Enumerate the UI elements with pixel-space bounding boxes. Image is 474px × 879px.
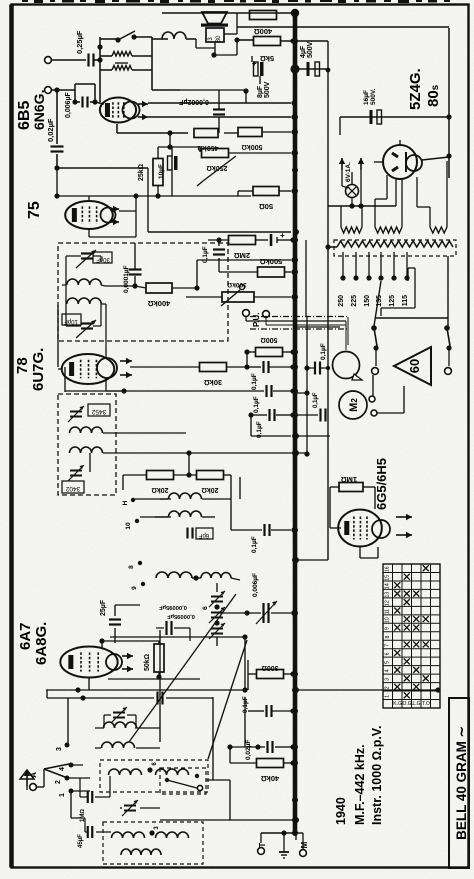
lamp label 6V-1A. [345, 162, 352, 182]
wire [80, 778, 87, 797]
coil IF2a [70, 427, 103, 433]
wire [373, 375, 404, 413]
capacitor 45pF [78, 826, 92, 848]
node [326, 68, 331, 73]
svg-text:6V-1A.: 6V-1A. [345, 162, 352, 182]
ground [279, 840, 289, 858]
svg-text:45µF: 45µF [78, 834, 84, 848]
capacitor 0,006µF [65, 91, 98, 118]
wire HT line [237, 26, 449, 28]
svg-text:0,1µF: 0,1µF [313, 392, 319, 408]
wire [159, 630, 161, 742]
wire [180, 90, 246, 133]
tap label 115 [402, 295, 409, 306]
resistor 2MΩ [229, 236, 256, 261]
wire [94, 37, 103, 102]
svg-text:+: + [252, 59, 257, 68]
cropped print top edge [22, 0, 450, 3]
svg-text:6: 6 [385, 652, 391, 655]
motor M2 [339, 391, 367, 419]
resistor 40kΩ [257, 759, 284, 784]
switch mains 2 [444, 325, 451, 374]
tube 5Z4G rectifier [383, 145, 422, 179]
trimmer IF2a [68, 406, 84, 422]
resistor zigzag 2 [100, 63, 152, 70]
svg-text:13: 13 [385, 592, 391, 598]
node [54, 193, 59, 198]
svg-text:2MΩ: 2MΩ [234, 251, 250, 260]
arrow dial lamps [339, 158, 364, 170]
svg-text:1940: 1940 [334, 797, 348, 825]
switch mains [371, 325, 378, 374]
terminal [369, 396, 377, 416]
wire [119, 196, 251, 211]
tube 6A7 [60, 647, 122, 678]
label P.U. [252, 312, 261, 327]
tube 6B5 [100, 98, 148, 123]
tube label 6A7 [17, 622, 34, 650]
resistor 400kΩ [146, 283, 172, 308]
terminal T [258, 842, 267, 854]
capacitor 0,1µF c [256, 409, 275, 438]
svg-text:225: 225 [351, 295, 358, 307]
transformer primary box [334, 240, 456, 256]
svg-text:0,1µF: 0,1µF [253, 396, 260, 413]
wire [342, 170, 361, 206]
label 3402 [62, 481, 84, 493]
svg-text:500V: 500V [264, 81, 271, 98]
wire [105, 286, 146, 288]
wire [422, 157, 449, 160]
svg-text:+: + [280, 231, 285, 240]
tap label 125 [389, 295, 396, 307]
wire [212, 697, 214, 780]
wire [295, 68, 328, 70]
svg-text:0,02µF: 0,02µF [46, 118, 55, 142]
svg-text:0,006µF: 0,006µF [65, 91, 72, 118]
capacitor 0,02µF [46, 118, 64, 151]
node [349, 203, 363, 208]
capacitor 0,0001µF [123, 265, 142, 293]
label 0,00095µF b [167, 613, 195, 619]
svg-text:30kΩ: 30kΩ [204, 378, 223, 387]
node [54, 165, 59, 170]
capacitor 0,1µF det [202, 246, 225, 263]
svg-text:2: 2 [55, 780, 62, 784]
svg-text:3: 3 [56, 747, 63, 751]
svg-text:Instr. 1000 Ω.p.V.: Instr. 1000 Ω.p.V. [370, 726, 384, 825]
IF transformer 1 box [58, 243, 228, 341]
band coil box 2 [103, 822, 203, 864]
wire [130, 352, 250, 370]
svg-text:78: 78 [14, 357, 31, 374]
wire [58, 348, 124, 391]
label 3452 [88, 404, 110, 416]
svg-text:500kΩ: 500kΩ [260, 257, 283, 266]
wire [66, 256, 101, 326]
wire [224, 13, 237, 34]
trimmer ant [111, 707, 127, 723]
contact 1 [59, 789, 74, 797]
svg-text:3402: 3402 [65, 485, 80, 492]
wire [104, 715, 136, 728]
svg-text:10µF: 10µF [158, 164, 165, 179]
svg-text:40kΩ: 40kΩ [261, 774, 280, 783]
arrow 6A7 1 [122, 653, 133, 659]
svg-text:400Ω: 400Ω [254, 27, 273, 36]
wire [296, 833, 303, 849]
wire [123, 453, 231, 490]
capacitor 0,0002µF [178, 98, 225, 115]
resistor 50Ω [253, 187, 279, 212]
svg-text:6: 6 [202, 606, 209, 610]
svg-text:0,1µF: 0,1µF [320, 343, 327, 360]
svg-text:25kΩ: 25kΩ [138, 164, 145, 181]
pickup triangle 60 [394, 347, 431, 385]
capacitor 0,1µF a [251, 361, 269, 390]
wire heater steps [375, 175, 430, 207]
svg-text:11: 11 [385, 609, 391, 614]
svg-text:0,006µF: 0,006µF [252, 573, 259, 597]
svg-text:8: 8 [128, 565, 135, 569]
wire [64, 367, 66, 392]
svg-text:4: 4 [385, 669, 391, 672]
antenna A [20, 770, 38, 786]
wire [186, 294, 297, 299]
capacitor 8µF 500V [252, 59, 271, 98]
speaker [201, 12, 228, 27]
wire [57, 168, 136, 196]
caption MF [353, 744, 367, 825]
tap label 250 [338, 295, 345, 307]
svg-text:T.O.: T.O. [422, 701, 431, 707]
capacitor 0,02µF bot [245, 740, 273, 760]
tube 75 [65, 201, 115, 229]
tube label 75 [26, 201, 43, 219]
coil IF1b [67, 298, 106, 348]
tube label 78 [14, 357, 31, 374]
svg-text:1: 1 [385, 695, 391, 698]
svg-text:O.G.: O.G. [402, 701, 413, 707]
wire [89, 453, 91, 472]
vertical wire [147, 168, 149, 232]
svg-text:A: A [29, 772, 38, 778]
wire [244, 697, 246, 747]
node [292, 38, 298, 836]
arrow 2 [120, 372, 132, 378]
resistor 5kΩ [254, 37, 281, 64]
capacitor bias + [271, 231, 285, 246]
IF transformer 2 box [58, 394, 116, 495]
arrow 6A7 2 [122, 666, 133, 672]
wire [296, 326, 340, 328]
coil IF2b [70, 447, 103, 453]
winding heater 2 [375, 178, 402, 233]
terminal P.U. 1 [243, 310, 250, 317]
svg-text:400kΩ: 400kΩ [148, 299, 171, 308]
wire [100, 38, 116, 40]
wire selector 2 [381, 268, 415, 316]
svg-text:6U7G.: 6U7G. [30, 348, 47, 391]
svg-text:25µF: 25µF [100, 599, 107, 616]
coil band 1 [109, 767, 153, 775]
band coil box 1 [100, 760, 208, 792]
svg-text:50kΩ: 50kΩ [144, 654, 151, 671]
switch arm [44, 764, 69, 777]
wire long [148, 229, 299, 235]
terminal M [300, 841, 309, 856]
tube 6U7G [62, 354, 117, 384]
capacitor 0,1µF bot [242, 696, 272, 717]
wire [206, 779, 230, 781]
svg-text:9: 9 [385, 627, 391, 630]
wire grid [57, 305, 59, 367]
coil band big [121, 849, 161, 855]
tube 6G5 [338, 510, 390, 547]
wire [251, 433, 299, 439]
tube label 6A8G. [33, 622, 50, 665]
svg-text:0,1µF: 0,1µF [251, 373, 258, 390]
svg-text:0,0001µF: 0,0001µF [123, 265, 130, 293]
svg-text:H: H [122, 500, 129, 505]
wire [65, 388, 296, 393]
caption Instr [370, 726, 384, 825]
coil osc c [156, 572, 192, 578]
gram switch [165, 774, 203, 791]
wire [360, 547, 378, 558]
svg-text:10: 10 [385, 617, 391, 623]
svg-text:16: 16 [385, 566, 391, 572]
wire [211, 40, 237, 58]
wire [216, 637, 218, 646]
capacitor 10µF [158, 156, 178, 179]
wire [66, 304, 101, 326]
trimmer IF1b [76, 320, 96, 338]
svg-text:6A8G.: 6A8G. [33, 622, 50, 665]
svg-text:6G5/6H5: 6G5/6H5 [374, 458, 389, 510]
wire [261, 833, 296, 843]
arrow diode 2 [110, 219, 119, 225]
contact 4 [59, 763, 74, 771]
wire [52, 84, 104, 104]
wire [172, 285, 200, 290]
wire long avc [293, 687, 441, 693]
wire [155, 186, 160, 199]
label 6 [202, 606, 209, 610]
wire [95, 728, 160, 748]
wire [52, 59, 86, 61]
coil ant b [102, 742, 135, 748]
tap wires [340, 252, 409, 281]
tube label 80s [425, 84, 442, 107]
tube label 6U7G. [30, 348, 47, 391]
svg-text:80: 80 [216, 35, 222, 42]
node [290, 38, 295, 43]
svg-text:1: 1 [59, 793, 66, 797]
wire [219, 268, 297, 275]
svg-text:14: 14 [385, 583, 391, 589]
resistor 20kΩ a [147, 471, 174, 494]
gram switch box [160, 768, 206, 794]
wire [132, 243, 137, 289]
svg-text:20kΩ: 20kΩ [201, 486, 218, 493]
wire [239, 477, 241, 499]
wire bus bottom [295, 833, 297, 840]
svg-text:20kΩ: 20kΩ [151, 486, 168, 493]
wire [238, 188, 297, 196]
title box [449, 698, 469, 868]
svg-text:12: 12 [385, 600, 391, 606]
svg-text:3: 3 [385, 678, 391, 681]
svg-text:3452: 3452 [91, 408, 106, 415]
wire cathode [374, 140, 400, 162]
tube label 6B5 [16, 101, 33, 130]
wire [27, 769, 44, 790]
wire [216, 237, 221, 268]
wire [304, 317, 330, 457]
resistor 400Ω [250, 11, 277, 37]
wire [330, 487, 375, 528]
wire [46, 687, 248, 692]
wire [160, 780, 230, 820]
coil osc b [169, 511, 202, 517]
wire [448, 28, 450, 178]
svg-text:300Ω: 300Ω [261, 664, 278, 671]
wire [231, 475, 297, 533]
caption 1940 [334, 797, 348, 825]
svg-text:M2: M2 [348, 398, 360, 412]
tap label 135 [376, 295, 383, 307]
svg-text:50Ω: 50Ω [259, 202, 273, 211]
coil IF1a [62, 279, 105, 286]
coil band 3 [112, 832, 145, 838]
capacitor 0,1µF osc [251, 524, 270, 553]
svg-text:10: 10 [125, 522, 132, 530]
switch on volume pot [115, 31, 152, 43]
resistor 500kΩ b [258, 257, 285, 277]
terminal input 1 [45, 57, 52, 64]
wire [115, 605, 140, 643]
resistor 300Ω [257, 664, 284, 679]
lamp dial big [333, 352, 363, 381]
node [446, 114, 451, 119]
svg-text:16µF: 16µF [363, 90, 370, 105]
wire [208, 237, 296, 242]
contact 10 [125, 519, 139, 530]
tap label 150 [364, 295, 371, 307]
svg-text:500Ω: 500Ω [260, 336, 277, 343]
wire [237, 39, 253, 41]
capacitor 25µF [100, 599, 121, 624]
terminal A [30, 784, 37, 791]
terminal input 2 [45, 87, 52, 94]
wire [103, 432, 186, 434]
wire [327, 41, 329, 560]
svg-text:8: 8 [385, 635, 391, 638]
wire [281, 830, 286, 840]
wire [248, 660, 296, 690]
svg-text:BELL 40 GRAM ∼: BELL 40 GRAM ∼ [454, 726, 469, 840]
wire [47, 690, 90, 791]
coil output choke [152, 32, 215, 48]
wire [192, 578, 240, 592]
contact 9 [131, 582, 145, 590]
label 30pF [93, 252, 112, 263]
wire [158, 147, 200, 159]
wire [103, 450, 192, 455]
svg-text:8µF: 8µF [257, 85, 264, 98]
contact 2 [55, 776, 70, 784]
capacitor 0,1µF b [253, 385, 272, 413]
winding primary [337, 241, 453, 247]
wire main B+ bus [293, 11, 298, 833]
terminal P.U. 2 [263, 311, 270, 318]
svg-text:0,25µF: 0,25µF [75, 30, 84, 54]
output transformer [206, 28, 224, 42]
wire [71, 791, 111, 832]
node bus top [291, 9, 299, 17]
wire [252, 56, 260, 84]
svg-text:6pF: 6pF [198, 532, 209, 538]
capacitor 0,1µF d [297, 392, 328, 421]
wire [89, 193, 139, 237]
wire plate [148, 114, 297, 119]
wire [117, 124, 188, 150]
resistor 250kΩ pot [197, 149, 236, 187]
capacitor 16µF 500V [363, 88, 382, 124]
wire [160, 498, 231, 500]
wire [281, 40, 328, 42]
wire [162, 12, 291, 14]
wire grid cap [110, 634, 248, 639]
trimmer padder 1 [209, 591, 225, 607]
wire [54, 87, 59, 168]
svg-text:10pF: 10pF [64, 318, 78, 324]
svg-text:125: 125 [389, 295, 396, 307]
wire [197, 257, 297, 262]
wire [328, 179, 396, 206]
resistor 450kΩ [194, 129, 218, 152]
svg-text:15: 15 [385, 575, 391, 581]
label 10pF [62, 314, 81, 325]
coil osc a [169, 493, 202, 499]
wire [186, 450, 307, 456]
wire [293, 557, 328, 563]
svg-text:5: 5 [385, 661, 391, 664]
capacitor gang grid [156, 621, 190, 641]
arrow 1 [120, 358, 132, 364]
svg-text:5kΩ: 5kΩ [260, 54, 274, 63]
wire [295, 392, 307, 394]
wire [296, 436, 341, 528]
svg-text:60: 60 [407, 359, 422, 373]
svg-text:500V.: 500V. [307, 40, 314, 58]
svg-text:0,00095µF: 0,00095µF [159, 604, 187, 610]
resistor 25kΩ [138, 159, 163, 186]
node bus junction [290, 64, 299, 73]
wire [217, 610, 297, 616]
capacitor 0,1µF mains [315, 343, 327, 374]
svg-text:500V.: 500V. [370, 88, 377, 105]
svg-text:9: 9 [131, 586, 138, 590]
coil osc d [193, 573, 231, 581]
tap label 225 [351, 295, 358, 307]
tube label 5Z4G. [407, 68, 424, 110]
arrow diode 1 [110, 206, 119, 212]
gang link diagonal 1 [129, 594, 236, 742]
contact H [122, 498, 135, 506]
resistor 500kΩ [238, 128, 262, 151]
